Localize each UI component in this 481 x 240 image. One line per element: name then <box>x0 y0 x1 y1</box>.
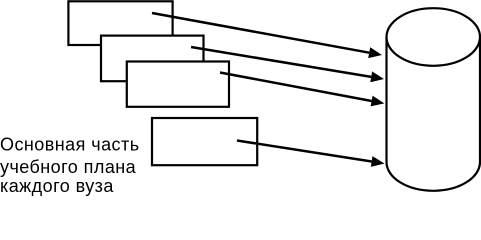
document box 2 <box>101 36 204 82</box>
document box 4 (bottom, labelled) <box>152 118 257 165</box>
arrow 3: box 3 to cylinder <box>220 73 384 107</box>
svg-text:учебного плана: учебного плана <box>0 157 137 177</box>
svg-text:каждого вуза: каждого вуза <box>0 176 114 196</box>
document box 1 (top) <box>68 1 172 45</box>
arrow 2: box 2 to cylinder <box>191 47 384 82</box>
arrow 1: box 1 to cylinder <box>152 13 382 58</box>
database cylinder top ellipse <box>387 8 481 66</box>
database cylinder body <box>387 37 481 191</box>
document box 3 <box>127 62 229 107</box>
svg-text:Основная часть: Основная часть <box>0 135 140 155</box>
arrow 4: box 4 to cylinder <box>237 141 385 167</box>
